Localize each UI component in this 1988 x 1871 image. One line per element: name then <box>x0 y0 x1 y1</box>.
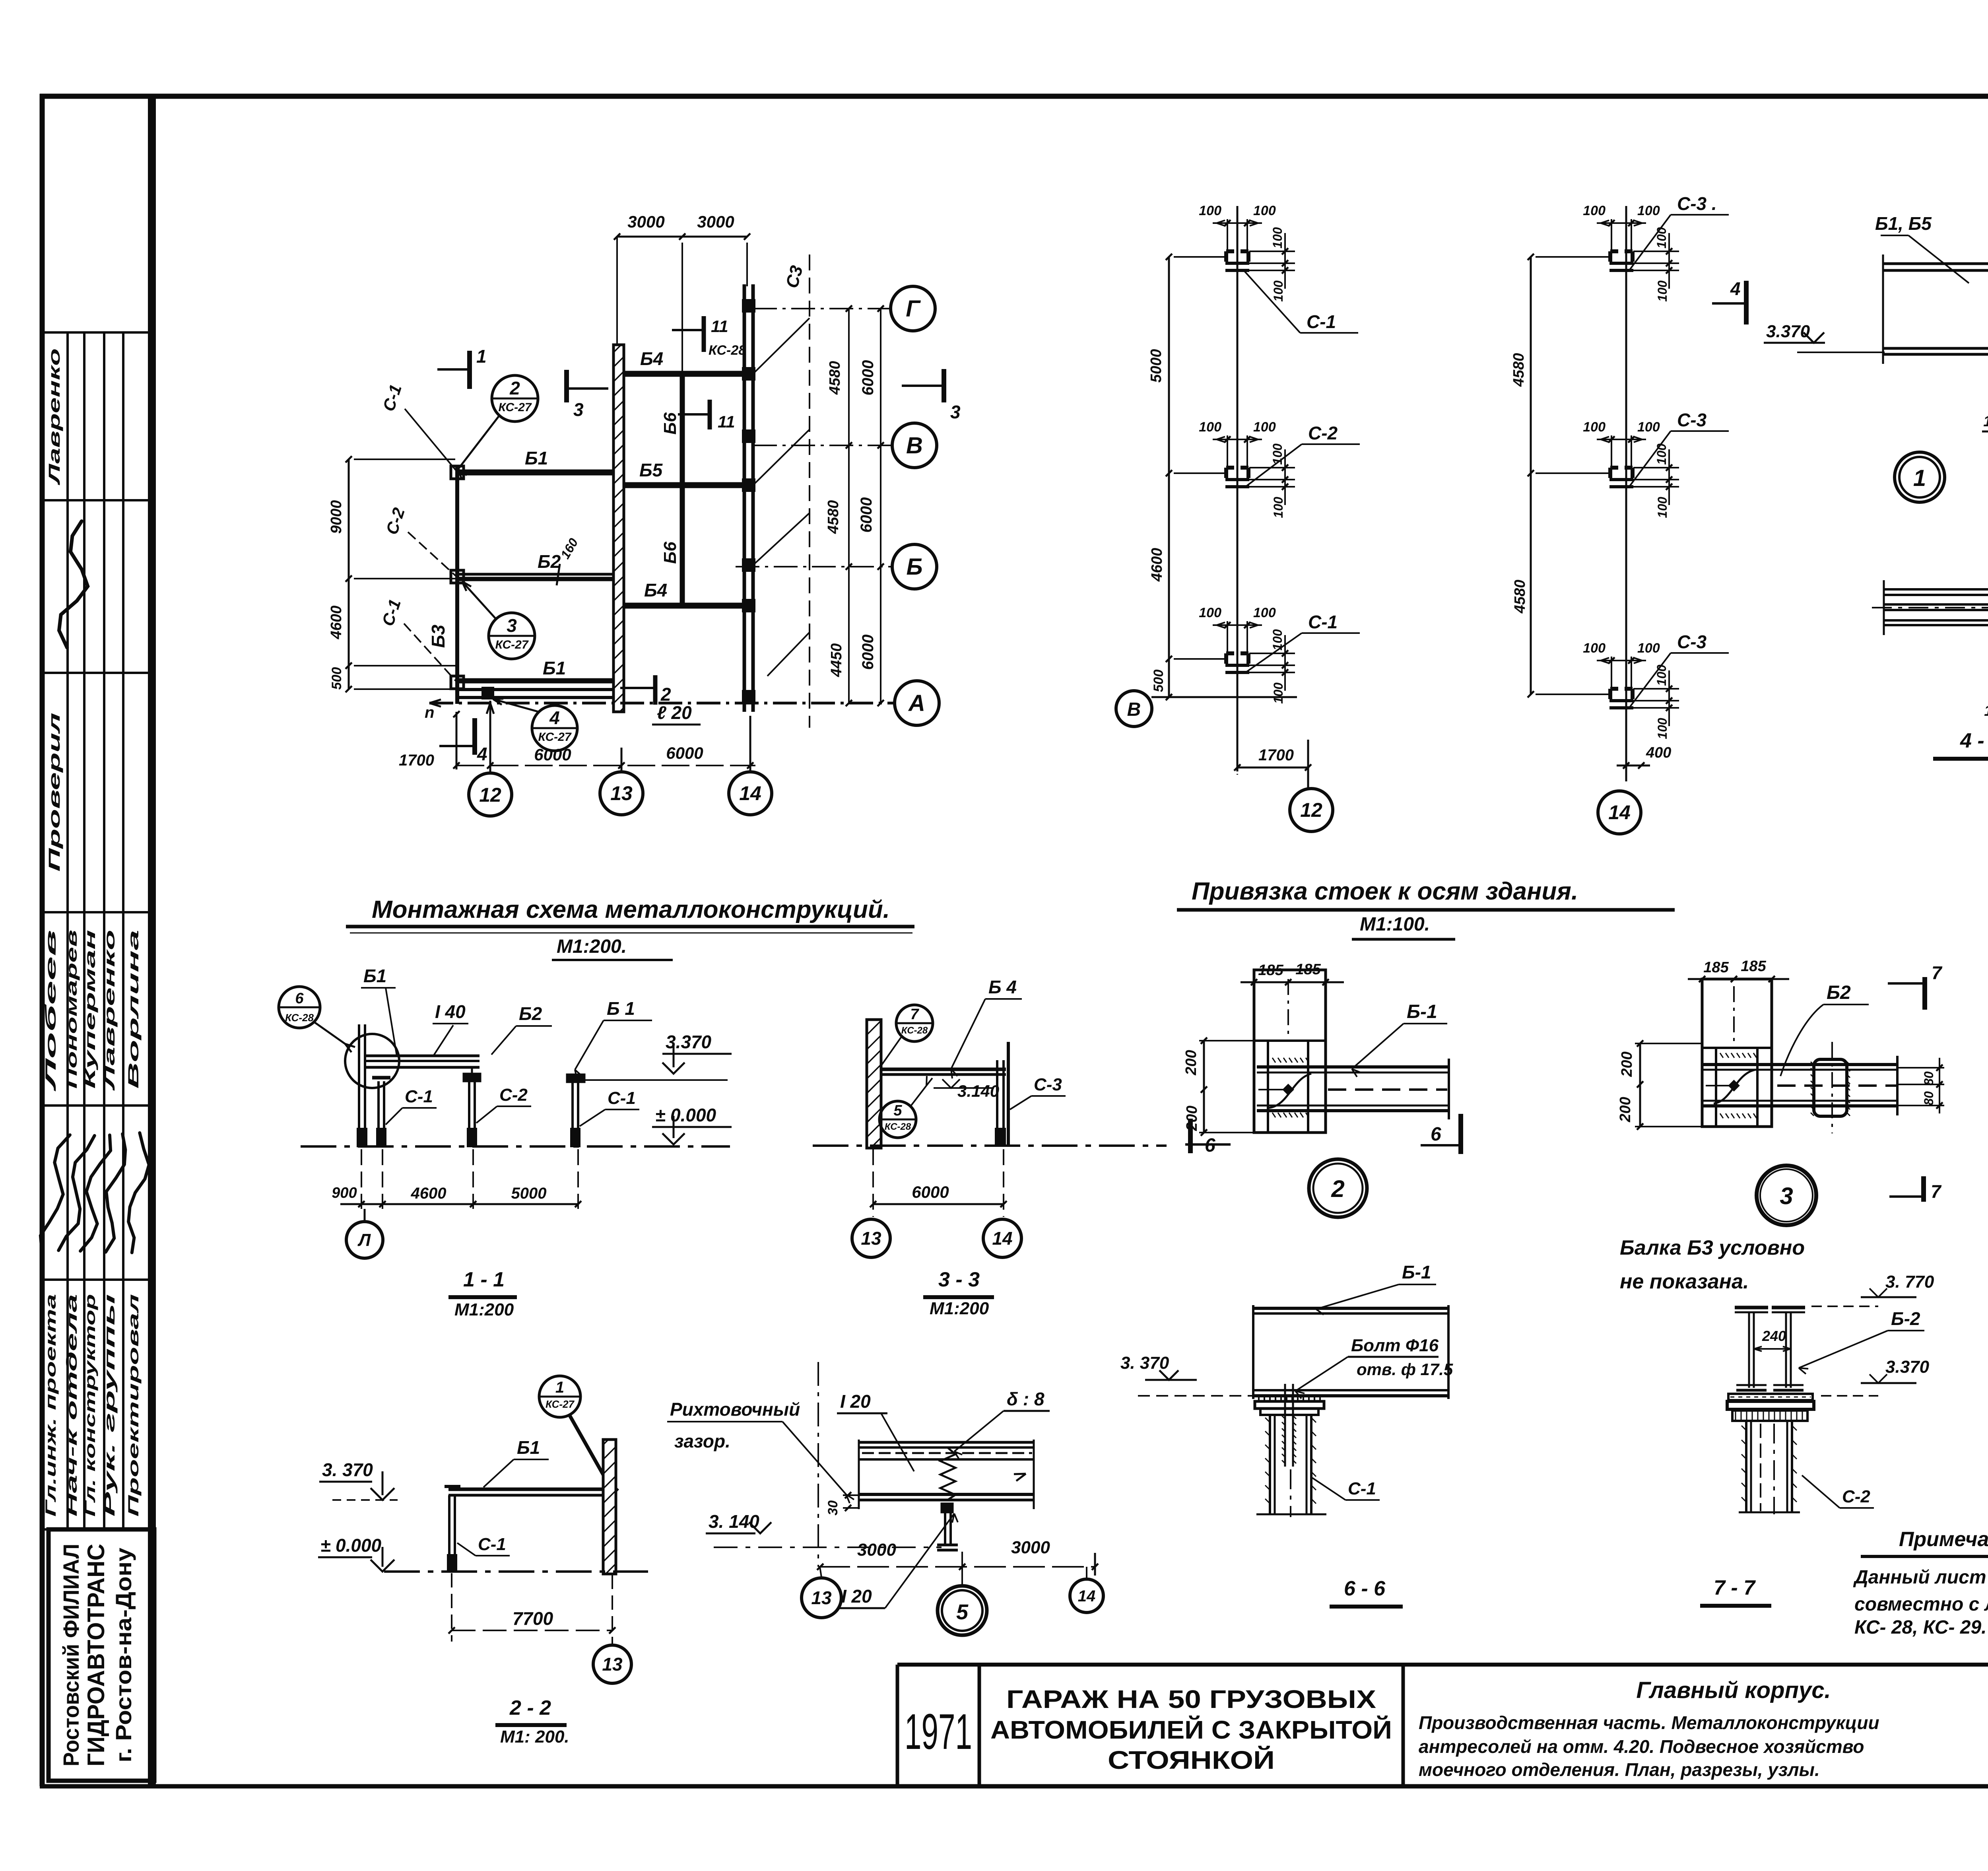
svg-text:С-1: С-1 <box>405 1087 433 1106</box>
svg-text:100: 100 <box>1583 203 1606 218</box>
node5: grid line 13 dashed <box>817 1362 819 1567</box>
node3: top dim 185+185 <box>1688 958 1789 982</box>
montage plan: top dim 3000+3000 <box>614 212 750 372</box>
montage plan: node squares on left axis <box>451 466 493 698</box>
section 1-1: level 3.370 right <box>584 1032 732 1080</box>
svg-text:5000: 5000 <box>511 1185 547 1202</box>
6-6: title <box>1330 1577 1403 1607</box>
svg-text:2: 2 <box>509 378 520 398</box>
svg-text:125: 125 <box>1983 413 1988 430</box>
section 3-3: ground line <box>813 1144 1167 1147</box>
title block sheet description <box>1419 1677 1879 1780</box>
privyazka: title <box>1177 878 1675 939</box>
montage plan: outer dim chain 6000 x3 <box>858 309 881 703</box>
svg-text:3.370: 3.370 <box>666 1032 712 1052</box>
montage plan: beam Б1 top <box>457 470 614 476</box>
svg-text:185: 185 <box>1741 958 1766 975</box>
montage plan: black squares on right wall <box>743 300 755 703</box>
montage plan: node circle 3 КС-27 <box>462 581 535 659</box>
section 3-3: beam Б4 <box>881 1069 1006 1074</box>
privyazka: stub C-3 top on axis 14 <box>1583 193 1729 302</box>
svg-text:100: 100 <box>1271 497 1285 518</box>
svg-text:1 - 1: 1 - 1 <box>463 1268 505 1291</box>
svg-text:500: 500 <box>1151 670 1166 692</box>
svg-text:30: 30 <box>825 1500 841 1515</box>
section 3-3: node circle 5 КС-28 <box>879 1076 932 1138</box>
svg-text:4580: 4580 <box>1510 353 1527 387</box>
svg-text:4580: 4580 <box>1512 580 1528 614</box>
svg-text:С-2: С-2 <box>1842 1487 1870 1506</box>
svg-text:100: 100 <box>1583 420 1606 435</box>
svg-text:100: 100 <box>1637 641 1660 656</box>
montage plan: horizontal axis Б dashed <box>736 563 891 570</box>
7-7: title <box>1700 1576 1771 1606</box>
node3: label Б2 with leader <box>1780 982 1869 1076</box>
svg-text:3: 3 <box>507 615 517 636</box>
section 1-1: label I40 <box>433 1001 468 1056</box>
svg-text:200: 200 <box>1617 1097 1634 1122</box>
svg-text:Рихтовочный: Рихтовочный <box>670 1399 800 1420</box>
svg-text:6: 6 <box>1431 1124 1441 1145</box>
6-6: column cap and bolts <box>1255 1384 1324 1467</box>
montage plan: section flag 2 at bottom beam <box>620 675 671 705</box>
svg-text:5: 5 <box>956 1600 969 1624</box>
7-7: level 3.770 <box>1811 1272 1934 1306</box>
privyazka: stub C-1 bottom on axis 12 <box>1199 605 1360 704</box>
svg-text:I 40: I 40 <box>435 1001 466 1022</box>
montage plan: grid circle Г <box>891 286 935 331</box>
svg-text:± 0.000: ± 0.000 <box>655 1105 716 1125</box>
node5: label δ=8 <box>954 1389 1050 1459</box>
svg-text:М1:200: М1:200 <box>930 1299 989 1318</box>
section 2-2: label Б1 <box>483 1437 549 1487</box>
svg-text:3000: 3000 <box>857 1540 896 1560</box>
svg-text:Б-1: Б-1 <box>1407 1001 1437 1022</box>
montage plan: dashed axis С3 <box>782 255 810 728</box>
svg-text:КС- 28, КС- 29.: КС- 28, КС- 29. <box>1854 1617 1987 1638</box>
section 1-1: column С-1 right standalone <box>567 1074 584 1146</box>
svg-text:Лобеев: Лобеев <box>43 930 59 1092</box>
svg-text:антресолей на отм. 4.20. П: антресолей на отм. 4.20. Подвесное хозяй… <box>1419 1736 1864 1757</box>
svg-text:Б6: Б6 <box>660 412 680 435</box>
svg-text:Нач-к отдела: Нач-к отдела <box>64 1294 80 1517</box>
privyazka: grid circle 14 <box>1598 791 1641 834</box>
section 3-3: node circle 7 КС-28 <box>881 1005 933 1066</box>
svg-text:В: В <box>906 433 923 459</box>
svg-text:1700: 1700 <box>399 752 434 769</box>
section 2-2: grid circle 13 <box>593 1645 631 1683</box>
node3: node circle 3 <box>1757 1166 1816 1225</box>
svg-text:г. Ростов-на-Дону: г. Ростов-на-Дону <box>111 1548 136 1762</box>
7-7: dim 240 between beams <box>1754 1328 1790 1351</box>
svg-text:100: 100 <box>1583 641 1606 656</box>
svg-text:Привязка стоек к осям здани: Привязка стоек к осям здания. <box>1192 878 1578 905</box>
svg-text:4: 4 <box>549 707 560 728</box>
montage plan: column label С-1 upper-left <box>379 382 456 470</box>
svg-text:Г: Г <box>906 296 921 322</box>
svg-text:3: 3 <box>573 399 584 420</box>
svg-text:6: 6 <box>1205 1135 1215 1156</box>
svg-text:1700: 1700 <box>1258 746 1294 764</box>
svg-text:100: 100 <box>1199 203 1221 218</box>
montage plan: grid circle 14 <box>729 716 772 815</box>
section 1-1: label Б1 right <box>575 998 652 1079</box>
svg-text:С-1: С-1 <box>1308 612 1338 632</box>
node1: bottom dims 125/125/250 <box>1982 368 1988 472</box>
node3: beam Б2 plan with splice <box>1702 1042 1897 1133</box>
node3: note Балка Б3 условно не показана <box>1620 1236 1805 1293</box>
6-6: level 3.370 <box>1120 1353 1252 1396</box>
svg-text:3. 370: 3. 370 <box>1120 1353 1169 1373</box>
section 2-2: label С-1 <box>457 1535 510 1556</box>
svg-text:Б2: Б2 <box>519 1003 542 1024</box>
svg-text:СТОЯНКОЙ: СТОЯНКОЙ <box>1108 1745 1275 1774</box>
section 1-1: column С-2 <box>464 1067 480 1146</box>
montage plan: column label С-2 left <box>382 505 456 576</box>
svg-text:Л: Л <box>357 1230 371 1250</box>
detail 4-4: bottom dims 100/100 <box>1984 703 1988 724</box>
organization block Ростовский филиал Гидроавтотранс <box>49 1529 154 1781</box>
section 2-2: node circle 1 КС-27 with arrow <box>539 1376 618 1496</box>
svg-text:В: В <box>1127 699 1141 720</box>
7-7: label С-2 <box>1802 1475 1874 1508</box>
svg-text:Лавренко: Лавренко <box>101 930 118 1092</box>
svg-text:Главный корпус.: Главный корпус. <box>1636 1677 1831 1703</box>
svg-text:Монтажная схема металлокон: Монтажная схема металлоконструкций. <box>372 896 890 923</box>
svg-text:ГАРАЖ НА 50 ГРУЗОВЫХ: ГАРАЖ НА 50 ГРУЗОВЫХ <box>1006 1685 1376 1714</box>
svg-text:3 - 3: 3 - 3 <box>938 1268 980 1291</box>
svg-text:С-3: С-3 <box>1677 410 1707 430</box>
montage plan: horizontal axis В dashed <box>753 442 891 449</box>
montage plan: diagonal leaders to С3 axis <box>753 318 810 676</box>
title block outline <box>897 1665 1988 1786</box>
title block project name <box>990 1685 1392 1774</box>
svg-text:2 - 2: 2 - 2 <box>509 1696 551 1719</box>
svg-text:4580: 4580 <box>827 361 843 395</box>
section 3-3: dim 6000 <box>870 1149 1007 1217</box>
privyazka: right axis line (axis 14) <box>1625 206 1627 781</box>
svg-text:Б1, Б5: Б1, Б5 <box>1875 213 1932 234</box>
montage plan: hatched wall strip <box>613 345 624 712</box>
svg-text:Б4: Б4 <box>640 348 663 369</box>
node3: section flags 7-7 <box>1888 962 1943 1202</box>
svg-text:200: 200 <box>1619 1051 1635 1077</box>
stamp table column lines <box>68 332 123 1529</box>
svg-text:6000: 6000 <box>666 744 703 762</box>
node2: left dims 200/200 <box>1183 1038 1253 1136</box>
section 1-1: tall left column <box>357 1024 367 1146</box>
privyazka: right dim chain 4580/4580 <box>1510 254 1610 697</box>
svg-text:С-3 .: С-3 . <box>1677 193 1717 214</box>
svg-text:Болт Ф16: Болт Ф16 <box>1351 1336 1439 1355</box>
svg-text:С-2: С-2 <box>499 1085 528 1105</box>
svg-text:3.370: 3.370 <box>1885 1357 1930 1377</box>
node2: section flags 6-6 <box>1185 1114 1461 1156</box>
node5: text Рихтовочный зазор <box>667 1399 854 1503</box>
section 3-3: grid circles 13 14 <box>852 1219 1021 1257</box>
section 2-2: level ±0.000 <box>318 1535 394 1572</box>
montage plan: left dim chain 9000/4600/500 <box>328 456 455 692</box>
node1: beam Б1/Б5 entering wall <box>1883 255 1988 364</box>
svg-text:Гл.инж. проекта: Гл.инж. проекта <box>43 1294 59 1517</box>
svg-text:С-3: С-3 <box>1677 631 1707 652</box>
svg-text:100: 100 <box>1253 203 1276 218</box>
svg-text:А: А <box>908 690 925 716</box>
svg-text:С-1: С-1 <box>608 1088 636 1108</box>
svg-text:7 - 7: 7 - 7 <box>1714 1576 1756 1599</box>
svg-text:3000: 3000 <box>627 212 664 231</box>
svg-text:1: 1 <box>555 1379 564 1396</box>
sheet bottom border <box>40 1784 1988 1789</box>
montage plan: grid circle А <box>895 681 939 725</box>
svg-text:М1:200: М1:200 <box>454 1300 514 1319</box>
montage plan: grid circle 12 <box>469 701 512 816</box>
node1: node circle 1 <box>1895 452 1945 502</box>
svg-text:1: 1 <box>1913 465 1926 491</box>
svg-text:11: 11 <box>718 412 735 431</box>
section 2-2: ground line <box>384 1570 648 1573</box>
svg-text:± 0.000: ± 0.000 <box>320 1535 382 1556</box>
sheet top border <box>40 94 1988 99</box>
svg-text:Куперман: Куперман <box>82 930 98 1089</box>
svg-text:С-1: С-1 <box>1348 1479 1376 1498</box>
svg-text:100: 100 <box>1199 420 1221 435</box>
svg-text:1: 1 <box>476 346 487 367</box>
section 1-1: level ±0.000 <box>652 1105 732 1144</box>
svg-text:100: 100 <box>1655 497 1670 518</box>
montage plan: section flag 4 bottom-left <box>439 718 487 764</box>
svg-text:моечного отделения. План,: моечного отделения. План, разрезы, узлы. <box>1419 1759 1820 1780</box>
node5: label I20 bottom <box>838 1514 958 1608</box>
svg-text:4600: 4600 <box>328 606 345 640</box>
svg-text:Лавренко: Лавренко <box>46 348 63 486</box>
svg-text:КС-27: КС-27 <box>546 1398 575 1410</box>
svg-text:14: 14 <box>992 1228 1012 1249</box>
svg-text:Рук. группы: Рук. группы <box>101 1294 118 1517</box>
stamp names column <box>43 930 142 1092</box>
svg-text:7: 7 <box>1932 962 1943 983</box>
svg-text:ГИДРОАВТОТРАНС: ГИДРОАВТОТРАНС <box>83 1544 109 1766</box>
svg-text:1971: 1971 <box>905 1704 972 1760</box>
7-7: cap plates and pedestal <box>1727 1394 1814 1421</box>
svg-text:11: 11 <box>711 317 728 336</box>
svg-text:13: 13 <box>811 1587 832 1608</box>
svg-text:80: 80 <box>1922 1071 1936 1086</box>
privyazka: dim 1700 bottom <box>1234 704 1311 775</box>
montage plan: beam Б6 vertical <box>680 374 685 606</box>
svg-text:240: 240 <box>1762 1328 1786 1344</box>
privyazka: stub C-3 mid on axis 14 <box>1583 410 1729 518</box>
node5: hanging I20 profile <box>937 1504 958 1550</box>
svg-text:3.370: 3.370 <box>1766 322 1810 341</box>
node2: beam Б-1 plan <box>1257 1059 1449 1119</box>
montage plan: section flag 11 lower <box>678 400 735 431</box>
node5: node circle 5 <box>938 1552 987 1635</box>
svg-text:100: 100 <box>1199 605 1221 620</box>
svg-text:М1:200.: М1:200. <box>557 936 627 957</box>
node1: label Б1,Б5 with leader <box>1875 213 1969 283</box>
montage plan: title <box>346 896 914 960</box>
section 2-2: title <box>495 1696 569 1747</box>
svg-text:100: 100 <box>1655 718 1670 739</box>
svg-text:4450: 4450 <box>828 643 845 678</box>
section 2-2: beam <box>448 1489 615 1495</box>
svg-text:Б3: Б3 <box>428 625 448 648</box>
svg-text:М1:100.: М1:100. <box>1360 914 1430 935</box>
stamp table horizontal dividers <box>42 332 152 1529</box>
section 3-3: right column С-3 <box>996 1042 1008 1145</box>
svg-text:3. 770: 3. 770 <box>1885 1272 1934 1292</box>
svg-text:900: 900 <box>332 1185 357 1201</box>
svg-text:6000: 6000 <box>912 1183 949 1201</box>
montage plan: beam Б4 bottom <box>624 603 744 609</box>
svg-text:7: 7 <box>1931 1181 1942 1202</box>
svg-text:100: 100 <box>1270 227 1285 249</box>
node3: left dims 200/200 <box>1617 1040 1701 1130</box>
node2: column С-1 plan strip <box>1254 970 1326 1133</box>
montage plan: bottom channel beam ℓ20 <box>455 690 619 697</box>
svg-text:I 20: I 20 <box>841 1586 872 1607</box>
svg-text:Б2: Б2 <box>1827 982 1851 1003</box>
svg-text:4: 4 <box>477 744 487 764</box>
montage plan: vertical dim 1700 <box>399 711 460 769</box>
montage plan: node circle 4 КС-27 <box>493 699 577 751</box>
svg-text:100: 100 <box>1654 664 1669 686</box>
svg-text:С-1: С-1 <box>1307 311 1336 332</box>
svg-text:Б1: Б1 <box>517 1437 540 1458</box>
svg-text:КС-28: КС-28 <box>709 343 746 358</box>
node5: grid circle 13 <box>802 1567 841 1618</box>
privyazka: stub C-3 bottom on axis 14 <box>1583 631 1729 739</box>
svg-text:100: 100 <box>1984 703 1988 719</box>
svg-text:3000: 3000 <box>1011 1538 1050 1557</box>
6-6: label Болт Ф16 отв 17.5 <box>1295 1336 1453 1399</box>
stamp strip left border <box>40 94 45 1786</box>
svg-text:12: 12 <box>1300 799 1322 821</box>
privyazka: axis В horizontal line and circle <box>1116 691 1297 727</box>
node2: label Б-1 with leader <box>1352 1001 1447 1077</box>
privyazka: stub C-2 on axis 12 <box>1199 420 1360 518</box>
svg-text:Б 4: Б 4 <box>988 977 1017 997</box>
svg-text:Б6: Б6 <box>660 542 680 564</box>
svg-text:Б4: Б4 <box>644 580 667 600</box>
svg-text:Проверил: Проверил <box>46 713 63 872</box>
svg-text:Б-2: Б-2 <box>1891 1308 1920 1329</box>
svg-text:КС-28: КС-28 <box>885 1121 911 1132</box>
svg-text:100: 100 <box>1637 420 1660 435</box>
svg-text:δ : 8: δ : 8 <box>1007 1389 1044 1409</box>
svg-text:Данный лист смотри: Данный лист смотри <box>1853 1567 1988 1588</box>
svg-text:Б 1: Б 1 <box>607 998 635 1019</box>
section 2-2: dim 7700 <box>448 1573 615 1646</box>
svg-text:5000: 5000 <box>1148 349 1165 383</box>
svg-text:КС-27: КС-27 <box>498 401 532 414</box>
svg-text:100: 100 <box>1654 227 1669 249</box>
privyazka: left dim chain 5000/4600/500 <box>1148 254 1227 700</box>
montage plan: grid circle В <box>892 423 937 468</box>
svg-text:100: 100 <box>1253 420 1276 435</box>
svg-text:зазор.: зазор. <box>674 1431 730 1451</box>
svg-text:Производственная часть. Мет: Производственная часть. Металлоконструкц… <box>1419 1712 1879 1733</box>
svg-text:Пономарев: Пономарев <box>64 930 80 1089</box>
svg-text:7: 7 <box>910 1006 919 1023</box>
svg-text:185: 185 <box>1703 959 1729 976</box>
svg-text:КС-27: КС-27 <box>495 638 528 651</box>
montage plan: column label С-1 lower-left <box>378 597 456 681</box>
section 1-1: dim line 900/4600/5000 <box>332 1149 581 1209</box>
svg-text:С-1: С-1 <box>478 1535 506 1554</box>
section 3-3: label С-3 <box>1010 1075 1066 1109</box>
montage plan: right wall double line <box>744 284 753 712</box>
svg-text:АВТОМОБИЛЕЙ С ЗАКРЫТОЙ: АВТОМОБИЛЕЙ С ЗАКРЫТОЙ <box>990 1715 1392 1744</box>
svg-text:2: 2 <box>660 684 671 705</box>
privyazka: left axis line <box>1237 206 1239 771</box>
svg-text:Проектировал: Проектировал <box>125 1294 142 1517</box>
svg-text:5: 5 <box>893 1102 902 1119</box>
svg-text:100: 100 <box>1637 203 1660 218</box>
6-6: beam Б-1 side view <box>1253 1305 1448 1399</box>
section 1-1: axis circle Л <box>346 1209 383 1258</box>
section 3-3: hatched wall left <box>867 1020 881 1148</box>
svg-text:500: 500 <box>329 667 344 690</box>
svg-text:9000: 9000 <box>328 500 345 534</box>
svg-text:6 - 6: 6 - 6 <box>1344 1577 1386 1600</box>
svg-text:400: 400 <box>1646 744 1671 761</box>
detail 4-4: beam from left <box>1872 580 1988 635</box>
svg-text:4: 4 <box>1730 278 1741 299</box>
svg-text:6000: 6000 <box>859 360 877 396</box>
svg-text:КС-27: КС-27 <box>538 731 571 744</box>
node5: level 3.140 <box>706 1511 942 1547</box>
detail 4-4: title <box>1933 729 1988 759</box>
montage plan: node flag 11 КС-28 <box>672 316 746 358</box>
svg-text:4580: 4580 <box>825 500 842 534</box>
privyazka: stub C-1 top on axis 12 <box>1199 203 1358 333</box>
svg-text:С-3: С-3 <box>1034 1075 1062 1094</box>
svg-text:100: 100 <box>1654 443 1669 465</box>
privyazka: grid circle 12 <box>1290 740 1333 832</box>
node2: top dim 185+185 <box>1241 961 1344 985</box>
svg-text:12: 12 <box>479 784 501 806</box>
7-7: column С-2 shaft <box>1739 1421 1800 1514</box>
svg-text:100: 100 <box>1271 280 1285 302</box>
section 1-1: column С-1 left <box>372 1078 390 1146</box>
svg-text:КС-28: КС-28 <box>285 1012 314 1024</box>
node5: small dim 30 <box>825 1492 858 1515</box>
montage plan: section flag 1 top <box>437 346 487 389</box>
node1: level 3.370 left <box>1764 322 1885 352</box>
stamp signature (н.контроль) <box>56 520 97 649</box>
svg-text:100: 100 <box>1655 280 1670 302</box>
node3: column С-2 plan strip <box>1702 979 1772 1127</box>
montage plan: bottom dim line 6000+6000 <box>456 744 755 769</box>
svg-text:7700: 7700 <box>513 1608 553 1629</box>
svg-text:ℓ 20: ℓ 20 <box>657 702 692 723</box>
section 1-1: node circle around beam end <box>345 1034 399 1088</box>
privyazka: dim 400 bottom right <box>1617 744 1671 769</box>
svg-text:100: 100 <box>1271 682 1285 704</box>
montage plan: grid circle Б <box>892 544 937 589</box>
node5: grid circle 14 <box>1070 1567 1103 1613</box>
svg-text:100: 100 <box>1270 443 1285 465</box>
node1: section flags 4-4 <box>1712 278 1988 324</box>
svg-text:Б1: Б1 <box>543 658 566 678</box>
node3: right small dims 80/80 <box>1897 1058 1944 1113</box>
section 1-1: labels С-1 С-2 С-1 <box>386 1085 639 1126</box>
svg-text:3: 3 <box>950 402 961 422</box>
svg-text:не показана.: не показана. <box>1620 1270 1749 1293</box>
svg-text:100: 100 <box>1253 605 1276 620</box>
